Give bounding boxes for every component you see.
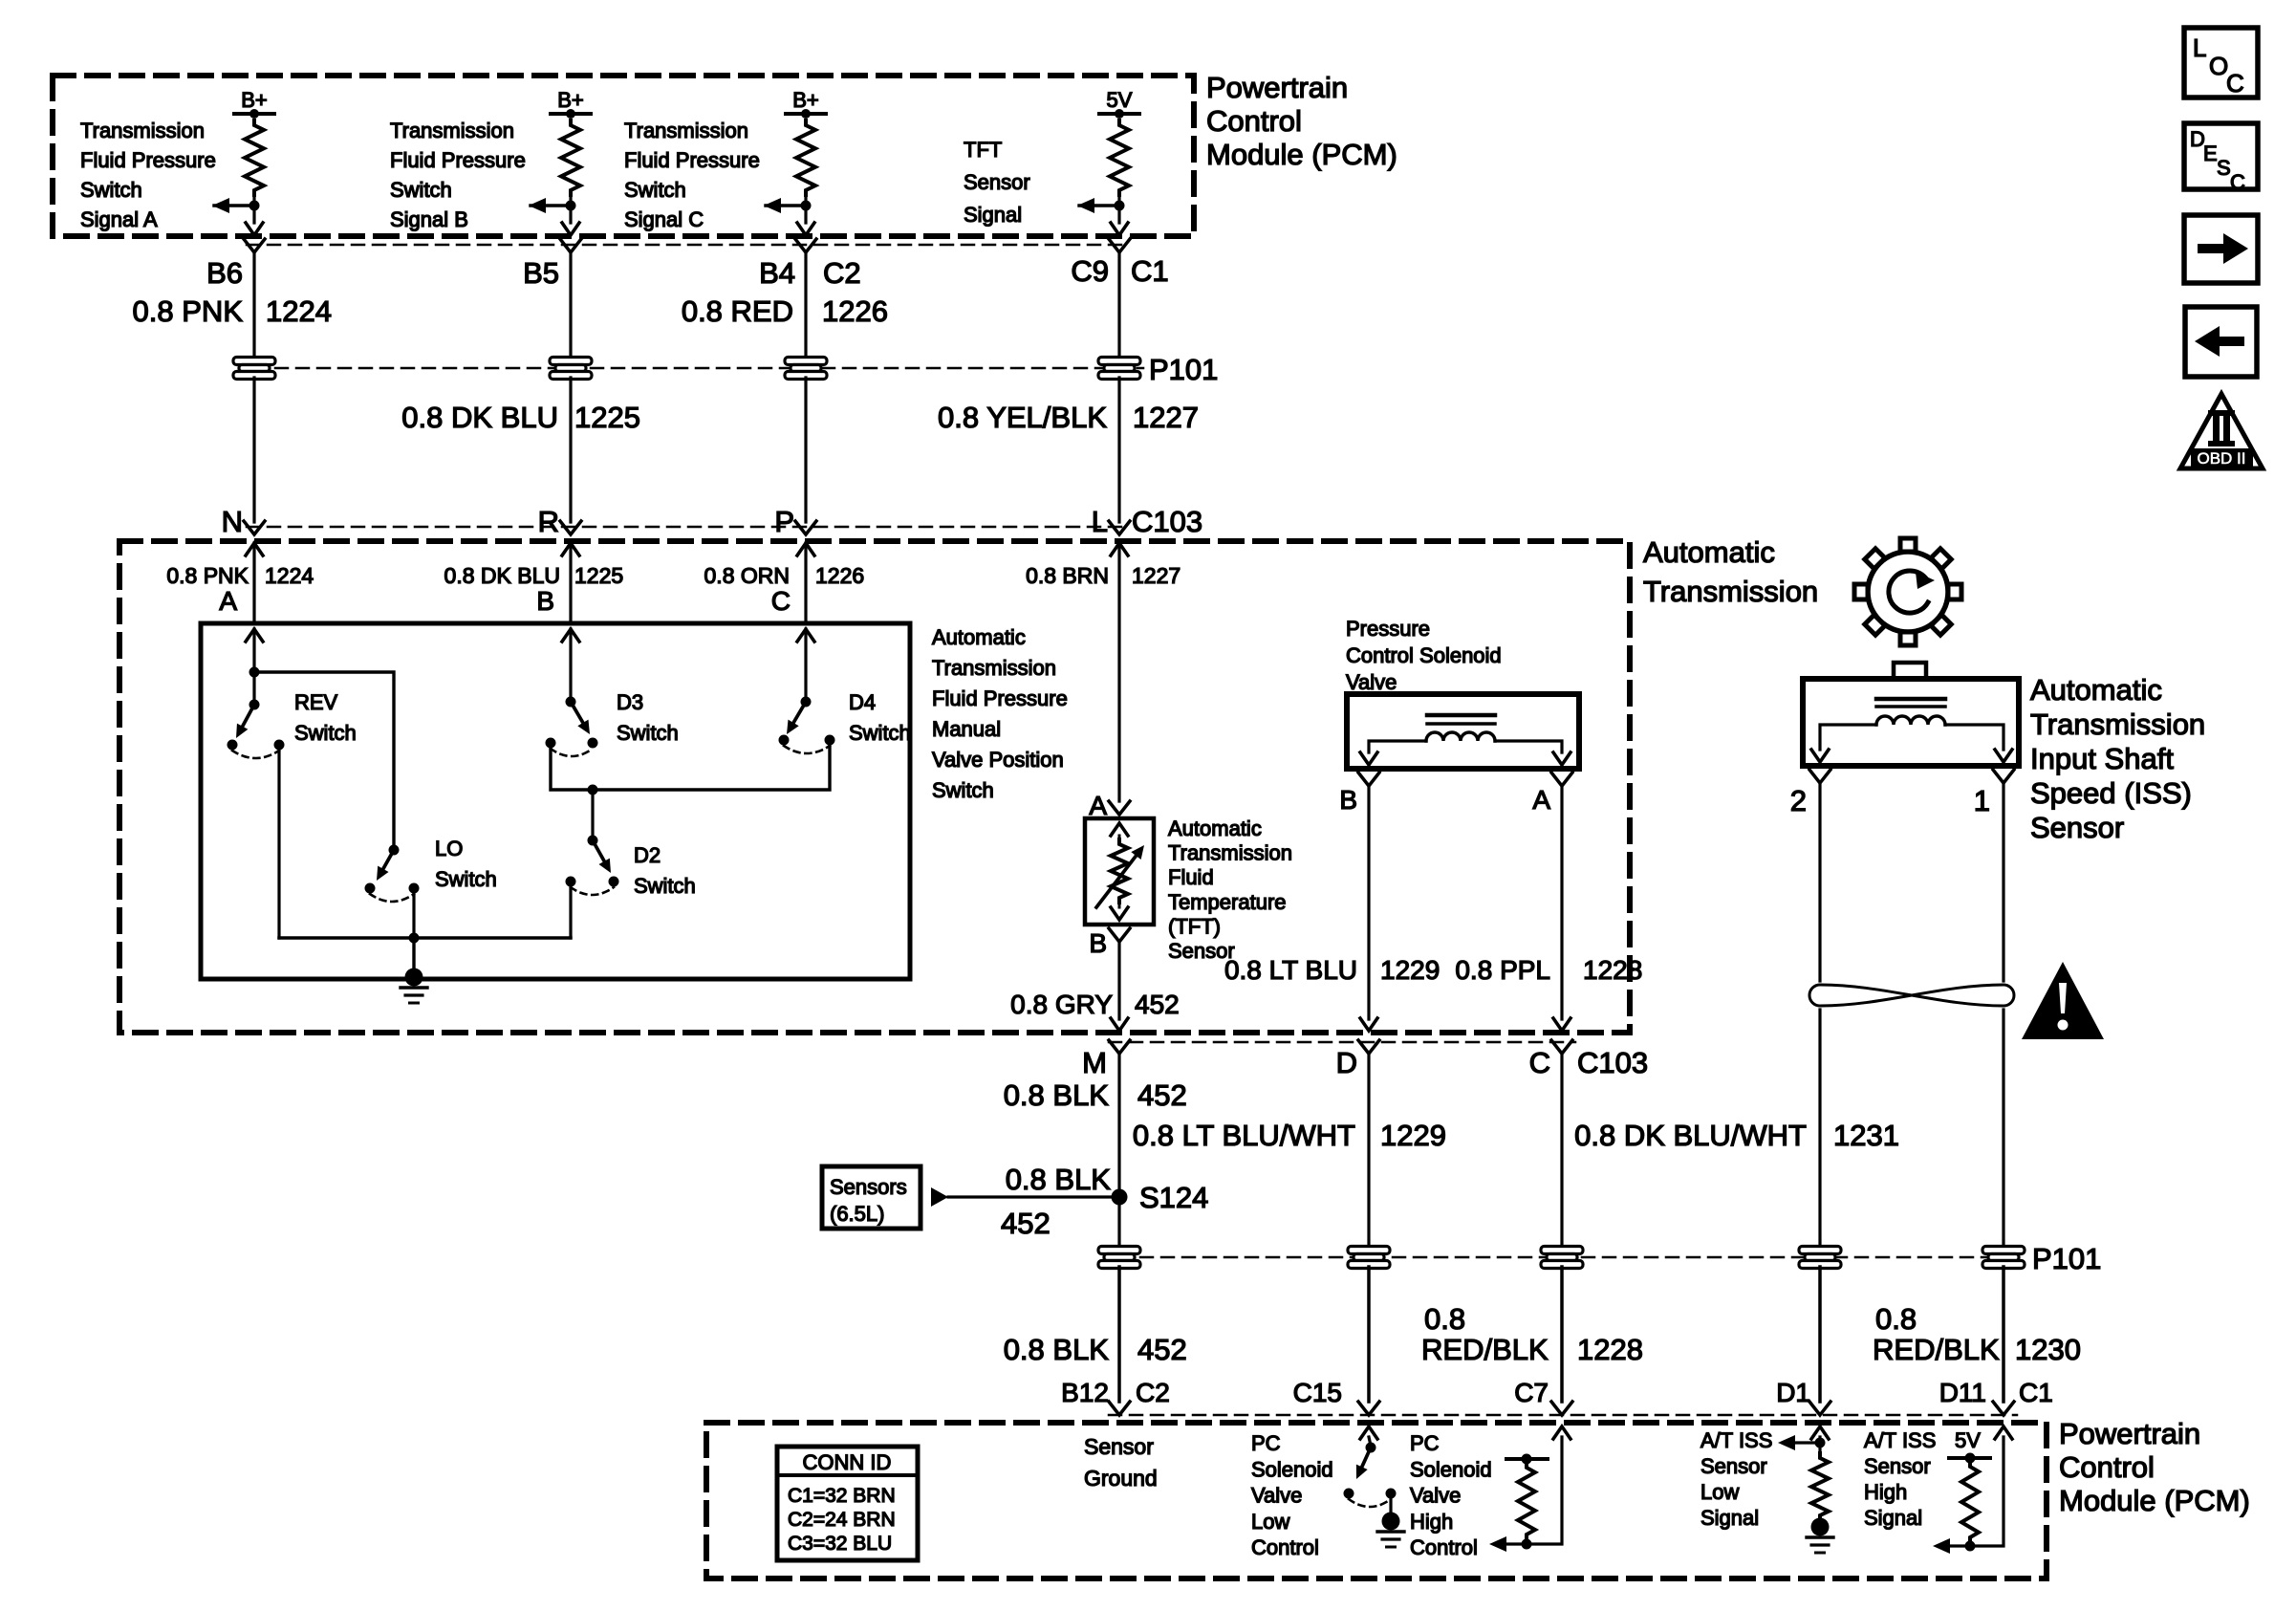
- svg-text:A: A: [1532, 785, 1550, 815]
- P101 pass-through connector row (bottom): [1119, 1256, 2017, 1259]
- svg-text:0.8 RED: 0.8 RED: [682, 294, 793, 328]
- svg-text:0.8: 0.8: [1424, 1302, 1465, 1336]
- pin fork D: [1358, 1040, 1379, 1054]
- P101 connector grommet at x=1634 (bottom): [1541, 1247, 1583, 1254]
- gear icon (input shaft): [1854, 538, 1961, 645]
- svg-text:Transmission: Transmission: [80, 119, 205, 142]
- svg-text:Signal: Signal: [1864, 1506, 1922, 1530]
- svg-text:Fluid Pressure: Fluid Pressure: [80, 148, 216, 172]
- C103 connector boundary line (thin dashed, bottom): [1109, 1041, 1575, 1044]
- wire 1227 YEL/BLK segment C1-P101: [1117, 252, 1120, 359]
- svg-text:0.8 PPL: 0.8 PPL: [1455, 955, 1550, 985]
- svg-text:C1: C1: [2019, 1378, 2053, 1407]
- svg-text:S124: S124: [1139, 1181, 1208, 1214]
- wire 1225 segment P101-R: [569, 378, 572, 522]
- ground symbol PC solenoid driver: [1377, 1513, 1404, 1548]
- wire label 0.8 BLK 452 (lower): [1004, 1333, 1187, 1366]
- svg-text:D3: D3: [617, 690, 643, 714]
- ground stub: [412, 938, 415, 975]
- pin fork at PCM bottom boundary x=1432: [1358, 1402, 1379, 1415]
- svg-text:1229: 1229: [1380, 1119, 1446, 1152]
- svg-text:Switch: Switch: [849, 721, 911, 745]
- wire label 0.8 BRN 1227 (AT): [1026, 563, 1180, 588]
- svg-text:1229: 1229: [1380, 955, 1440, 985]
- svg-text:Powertrain: Powertrain: [2059, 1417, 2200, 1450]
- wire label 0.8 LT BLU 1229: [1224, 955, 1440, 985]
- svg-text:1224: 1224: [265, 563, 314, 588]
- svg-text:Automatic: Automatic: [932, 625, 1026, 649]
- svg-text:N: N: [222, 505, 243, 538]
- svg-text:Sensors: Sensors: [830, 1175, 907, 1199]
- TFT thermistor symbol: [1096, 823, 1144, 920]
- P101 connector grommet at x=1171 (bottom): [1098, 1247, 1140, 1254]
- svg-text:B: B: [536, 586, 554, 616]
- label Automatic Transmission Fluid Temperature (TFT) Sensor: [1168, 816, 1292, 963]
- internal 5V pull-up resistor (ISS high): [1949, 1453, 1990, 1552]
- svg-text:Module (PCM): Module (PCM): [2059, 1484, 2250, 1517]
- label A/T ISS Sensor Low Signal: [1700, 1428, 1772, 1530]
- ground symbol ISS low: [1807, 1518, 1833, 1554]
- label PC Solenoid Valve Low Control: [1251, 1431, 1333, 1559]
- svg-text:Switch: Switch: [624, 178, 686, 202]
- svg-text:Signal A: Signal A: [80, 207, 158, 231]
- TFT sensor box: [1085, 818, 1154, 925]
- arrow up into PCM at D1: [1811, 1426, 1829, 1439]
- wire 1228 segment P101 to C15: [1367, 1267, 1371, 1402]
- svg-text:M: M: [1082, 1046, 1107, 1079]
- pin fork at C103, pin P: [795, 521, 816, 534]
- wire label 0.8 BLK 452 (M): [1004, 1078, 1187, 1112]
- ISS sensor mounting tab: [1894, 663, 1926, 679]
- wire column A inside switch box: [249, 629, 260, 705]
- arrow up into PCM at C7: [1553, 1426, 1570, 1439]
- wire 452 segment P101 to B12: [1117, 1267, 1121, 1402]
- fork at ISS terminal 2: [1809, 770, 1830, 783]
- svg-text:0.8 BLK: 0.8 BLK: [1004, 1078, 1110, 1112]
- svg-text:0.8 GRY: 0.8 GRY: [1010, 990, 1113, 1019]
- P101 connector grommet at x=1171: [1098, 358, 1140, 365]
- wire 1224 segment P101-N: [252, 378, 255, 522]
- svg-text:High: High: [1410, 1510, 1453, 1534]
- svg-text:High: High: [1864, 1480, 1907, 1504]
- P101 connector grommet at x=266: [233, 358, 275, 365]
- description text column A: [80, 119, 216, 231]
- label REV Switch: [294, 690, 357, 745]
- CONN ID table: [777, 1447, 918, 1560]
- wire to PCM pin, column B: [562, 195, 579, 235]
- wire column C inside switch box (D4): [804, 629, 807, 702]
- label PC Solenoid Valve High Control: [1410, 1431, 1492, 1559]
- svg-text:Switch: Switch: [80, 178, 142, 202]
- resistor pull-up, column C: [796, 120, 815, 195]
- svg-text:Switch: Switch: [932, 778, 994, 802]
- arrow up inside switch box at x=843: [797, 629, 814, 642]
- svg-text:L: L: [1092, 505, 1108, 538]
- P101 pass-through connector row (top): [254, 367, 1143, 370]
- svg-text:A/T ISS: A/T ISS: [1700, 1428, 1772, 1452]
- resistor pull-up, column TFT: [1110, 120, 1129, 195]
- svg-text:Automatic: Automatic: [1168, 816, 1262, 840]
- svg-text:Control: Control: [1410, 1535, 1478, 1559]
- svg-text:Solenoid: Solenoid: [1251, 1457, 1333, 1481]
- signal tap arrow, column A: [212, 198, 260, 213]
- wire 452 GRY segment TFT-B to C103: [1111, 942, 1128, 1031]
- twisted pair symbol: [1809, 985, 2014, 1006]
- svg-text:Ground: Ground: [1084, 1466, 1158, 1491]
- pin fork at PCM bottom boundary x=1904: [1809, 1402, 1830, 1415]
- PCM connector boundary line (thin dashed): [247, 244, 1128, 247]
- svg-text:1225: 1225: [574, 401, 640, 434]
- svg-text:Signal C: Signal C: [624, 207, 704, 231]
- wire label 0.8 LT BLU/WHT 1229: [1133, 1119, 1446, 1152]
- svg-text:Speed (ISS): Speed (ISS): [2030, 776, 2192, 810]
- arrow up inside switch box at x=266: [246, 629, 263, 642]
- svg-text:C1=32 BRN: C1=32 BRN: [788, 1485, 896, 1507]
- C103 connector boundary line (thin dashed, top): [247, 526, 1128, 529]
- signal tap arrow, column C: [764, 198, 812, 213]
- wire from REV switch contact to ground rail: [277, 750, 280, 938]
- internal resistor (ISS low): [1811, 1453, 1829, 1520]
- svg-text:B+: B+: [241, 88, 268, 112]
- svg-text:Signal: Signal: [964, 203, 1022, 227]
- description text column C: [624, 119, 760, 231]
- pin fork at PCM bottom boundary x=1171: [1109, 1402, 1130, 1415]
- svg-text:B: B: [1339, 785, 1357, 815]
- svg-text:Sensor: Sensor: [964, 170, 1030, 194]
- REV switch: [227, 700, 285, 759]
- wire 1230 segment P101 to D11: [2002, 1267, 2005, 1402]
- wire 1231 segment twisted pair to P101: [1818, 1010, 1821, 1248]
- svg-text:Switch: Switch: [634, 874, 696, 898]
- wire label 0.8 ORN 1226 (AT): [704, 563, 865, 588]
- svg-text:Transmission: Transmission: [2030, 708, 2205, 741]
- solenoid coil: [1426, 732, 1495, 741]
- wire entering AT box at x=1171 with up arrow: [1111, 543, 1128, 801]
- wire 1227 segment P101-L: [1117, 378, 1120, 522]
- arrow up into PCM at D11: [1995, 1426, 2012, 1439]
- internal output arrow (ISS high): [1933, 1538, 1950, 1554]
- svg-text:C: C: [1529, 1046, 1550, 1079]
- wire column B inside switch box (D3): [569, 629, 572, 702]
- wire 1229 LT BLU segment solenoid-B to C103: [1360, 786, 1377, 1031]
- svg-text:Manual: Manual: [932, 717, 1001, 741]
- pin fork at PCM boundary, column B: [560, 239, 581, 252]
- svg-text:1231: 1231: [1833, 1119, 1899, 1152]
- svg-text:C1: C1: [1131, 254, 1169, 288]
- wire 1226 RED segment B4-P101: [804, 252, 807, 359]
- svg-text:(6.5L): (6.5L): [830, 1202, 884, 1226]
- internal resistor (PC high): [1506, 1454, 1548, 1550]
- svg-text:0.8 BLK: 0.8 BLK: [1004, 1333, 1110, 1366]
- svg-text:Module (PCM): Module (PCM): [1206, 138, 1397, 171]
- wire label 0.8 PPL 1228: [1455, 955, 1642, 985]
- svg-text:Sensor: Sensor: [1700, 1454, 1767, 1478]
- svg-text:Fluid Pressure: Fluid Pressure: [390, 148, 526, 172]
- solenoid lead A: [1495, 741, 1570, 765]
- svg-text:D2: D2: [634, 843, 661, 867]
- wire 1229 segment D to P101: [1367, 1054, 1370, 1248]
- wire to PCM pin, column A: [246, 195, 263, 235]
- svg-text:452: 452: [1137, 1078, 1187, 1112]
- svg-text:Valve: Valve: [1251, 1484, 1302, 1508]
- back arrow icon: [2185, 307, 2257, 377]
- svg-text:PC: PC: [1251, 1431, 1281, 1455]
- wire 1231 segment P101 to D1: [1818, 1267, 1822, 1402]
- svg-text:B+: B+: [557, 88, 584, 112]
- ISS core bars: [1876, 699, 1945, 707]
- ISS lead 2: [1811, 725, 1876, 762]
- arrow up into PCM at C15: [1360, 1426, 1377, 1439]
- ground rail inside switch box: [279, 936, 571, 939]
- svg-text:Control: Control: [1251, 1535, 1319, 1559]
- svg-text:5V: 5V: [1107, 88, 1133, 112]
- svg-text:D11: D11: [1939, 1378, 1986, 1407]
- wire label 0.8 YEL/BLK 1227: [938, 401, 1199, 434]
- pin fork at PCM boundary, column TFT: [1109, 239, 1130, 252]
- label Automatic Transmission Fluid Pressure Manual Valve Position Switch: [932, 625, 1068, 802]
- wire label 0.8 DK BLU 1225: [401, 401, 640, 434]
- label Automatic Transmission title: [1643, 535, 1818, 608]
- svg-text:Automatic: Automatic: [1643, 535, 1775, 569]
- pin fork at PCM bottom boundary x=1634: [1551, 1402, 1572, 1415]
- label A/T ISS Sensor High Signal: [1864, 1428, 1936, 1530]
- pin fork at C103, pin L: [1109, 521, 1130, 534]
- svg-text:C15: C15: [1293, 1378, 1342, 1407]
- P101 connector grommet at x=1432 (bottom): [1348, 1247, 1390, 1254]
- D4 switch: [779, 697, 835, 754]
- wire entering AT box at x=266 with up arrow: [246, 543, 263, 623]
- D2 switch: [566, 836, 619, 896]
- branch wire to LO switch: [254, 672, 394, 850]
- svg-text:A: A: [219, 586, 237, 616]
- svg-text:Fluid Pressure: Fluid Pressure: [932, 686, 1068, 710]
- svg-text:Pressure: Pressure: [1346, 617, 1430, 641]
- svg-text:Switch: Switch: [617, 721, 679, 745]
- svg-text:Sensor: Sensor: [1864, 1454, 1931, 1478]
- svg-text:OBD II: OBD II: [2197, 449, 2245, 468]
- svg-text:D1: D1: [1776, 1378, 1810, 1407]
- svg-text:1230: 1230: [2015, 1333, 2081, 1366]
- D3 switch: [546, 697, 598, 757]
- wire label 0.8 RED 1226: [682, 294, 888, 328]
- svg-text:C3=32 BLU: C3=32 BLU: [788, 1533, 892, 1555]
- wire label 0.8 PNK 1224 (AT): [166, 563, 314, 588]
- label D2 Switch: [634, 843, 696, 898]
- PCM (Powertrain Control Module) bottom box outline: [706, 1423, 2047, 1578]
- wire 1226 segment P101-P: [804, 378, 807, 522]
- svg-text:B12: B12: [1061, 1378, 1109, 1407]
- svg-text:0.8 ORN: 0.8 ORN: [704, 563, 790, 588]
- svg-text:Control: Control: [2059, 1450, 2155, 1484]
- fork at TFT sensor terminal A: [1109, 801, 1130, 815]
- internal tap arrow (ISS low): [1778, 1435, 1826, 1450]
- solenoid lead B: [1360, 741, 1426, 765]
- P101 connector grommet at x=1904 (bottom): [1799, 1247, 1841, 1254]
- svg-text:REV: REV: [294, 690, 338, 714]
- svg-text:Sensor: Sensor: [2030, 811, 2124, 844]
- svg-text:452: 452: [1135, 990, 1180, 1019]
- wire D2 contact to ground rail: [569, 886, 572, 938]
- warning triangle symbol: [2022, 962, 2104, 1039]
- ground symbol of switch box: [401, 969, 427, 1004]
- svg-text:Valve Position: Valve Position: [932, 748, 1064, 772]
- wire C7 internal: [1506, 1437, 1562, 1544]
- wire D11 internal: [1950, 1437, 2004, 1546]
- P101 connector grommet at x=843: [785, 358, 827, 365]
- wire 1224 PNK segment B6-P101: [252, 252, 255, 359]
- svg-text:452: 452: [1001, 1207, 1051, 1240]
- signal tap arrow, column TFT: [1077, 198, 1125, 213]
- Pressure Control Solenoid Valve box: [1347, 694, 1579, 769]
- wire label 0.8 RED/BLK 1228: [1421, 1302, 1643, 1366]
- svg-text:0.8 LT BLU/WHT: 0.8 LT BLU/WHT: [1133, 1119, 1355, 1152]
- svg-text:Sensor: Sensor: [1084, 1434, 1154, 1459]
- svg-text:C9: C9: [1071, 254, 1109, 288]
- wire 1228 segment C to P101: [1560, 1054, 1563, 1248]
- wire label 0.8 RED/BLK 1230: [1873, 1302, 2081, 1366]
- PCM (Powertrain Control Module) top box outline: [53, 76, 1194, 236]
- label Powertrain Control Module (PCM) bottom: [2059, 1417, 2250, 1517]
- pin fork M: [1109, 1040, 1130, 1054]
- svg-text:1: 1: [1974, 784, 1990, 817]
- label LO Switch: [435, 837, 497, 891]
- off-page arrow to sensors: [931, 1187, 948, 1207]
- arrow up inside switch box at x=597: [562, 629, 579, 642]
- svg-text:C103: C103: [1132, 505, 1202, 538]
- junction dot ground rail: [409, 933, 420, 944]
- svg-text:C: C: [2226, 69, 2244, 98]
- ISS lead 1: [1945, 725, 2012, 762]
- label D3 Switch: [617, 690, 679, 745]
- svg-text:E: E: [2203, 142, 2218, 165]
- wire 1228 segment P101 to C7: [1560, 1267, 1564, 1402]
- wire 452 BLK segment M to S124: [1117, 1054, 1120, 1248]
- svg-text:A/T ISS: A/T ISS: [1864, 1428, 1936, 1452]
- label Automatic Transmission Input Shaft Speed (ISS) Sensor: [2030, 673, 2205, 844]
- svg-text:1228: 1228: [1577, 1333, 1643, 1366]
- svg-text:0.8 PNK: 0.8 PNK: [166, 563, 249, 588]
- svg-text:0.8 PNK: 0.8 PNK: [133, 294, 244, 328]
- P101 connector grommet at x=2096 (bottom): [1982, 1247, 2025, 1254]
- PCM bottom connector boundary line (thin dashed): [1109, 1414, 2017, 1417]
- svg-text:Valve: Valve: [1346, 670, 1397, 694]
- splice S124: [1112, 1189, 1128, 1206]
- svg-text:0.8 YEL/BLK: 0.8 YEL/BLK: [938, 401, 1107, 434]
- svg-text:D: D: [1336, 1046, 1357, 1079]
- P101 connector grommet at x=597: [550, 358, 592, 365]
- PC solenoid valve low control driver switch: [1344, 1437, 1397, 1515]
- svg-text:Automatic: Automatic: [2030, 673, 2162, 707]
- svg-text:0.8 LT BLU: 0.8 LT BLU: [1224, 955, 1357, 985]
- svg-text:Fluid Pressure: Fluid Pressure: [624, 148, 760, 172]
- pin fork at PCM bottom boundary x=2096: [1993, 1402, 2014, 1415]
- svg-text:P: P: [774, 505, 794, 538]
- svg-text:Switch: Switch: [390, 178, 452, 202]
- pin fork at C103, pin R: [560, 521, 581, 534]
- Sensors (6.5L) off-page reference box: [822, 1166, 921, 1229]
- junction dot D3/D4 rail: [588, 785, 598, 795]
- svg-text:LO: LO: [435, 837, 463, 860]
- svg-text:A: A: [1089, 791, 1107, 820]
- svg-text:Transmission: Transmission: [390, 119, 514, 142]
- ISS sensor box: [1803, 679, 2019, 766]
- svg-text:B: B: [1089, 928, 1107, 958]
- wire 1230 segment twisted pair to P101: [2002, 1010, 2004, 1248]
- svg-text:1225: 1225: [574, 563, 623, 588]
- svg-text:5V: 5V: [1955, 1428, 1981, 1452]
- svg-text:C: C: [771, 586, 791, 616]
- svg-text:0.8 DK BLU: 0.8 DK BLU: [444, 563, 560, 588]
- LO switch: [365, 845, 420, 903]
- svg-text:1227: 1227: [1133, 401, 1199, 434]
- label D4 Switch: [849, 690, 911, 745]
- wire entering AT box at x=597 with up arrow: [562, 543, 579, 623]
- svg-text:Input Shaft: Input Shaft: [2030, 742, 2174, 775]
- svg-text:R: R: [538, 505, 559, 538]
- wire 1231 segment ISS-2 to twisted pair: [1818, 783, 1821, 981]
- Manual Valve Position Switch inner box: [201, 623, 910, 979]
- svg-text:1226: 1226: [822, 294, 888, 328]
- svg-text:Powertrain: Powertrain: [1206, 71, 1348, 104]
- svg-text:B5: B5: [523, 256, 559, 290]
- svg-text:C2=24 BRN: C2=24 BRN: [788, 1509, 896, 1531]
- LOC icon: [2184, 28, 2258, 98]
- svg-text:Signal: Signal: [1700, 1506, 1759, 1530]
- svg-text:P101: P101: [2032, 1242, 2101, 1275]
- svg-text:Valve: Valve: [1410, 1484, 1461, 1508]
- svg-text:2: 2: [1790, 784, 1807, 817]
- wire 1230 segment ISS-1 to twisted pair: [2002, 783, 2004, 981]
- svg-text:Control Solenoid: Control Solenoid: [1346, 643, 1502, 667]
- svg-text:Low: Low: [1700, 1480, 1739, 1504]
- label Powertrain Control Module (PCM) top: [1206, 71, 1397, 171]
- DESC icon: [2184, 123, 2258, 194]
- wire label 0.8 GRY 452: [1010, 990, 1180, 1019]
- svg-text:Control: Control: [1206, 104, 1302, 138]
- svg-text:0.8 BRN: 0.8 BRN: [1026, 563, 1109, 588]
- svg-text:0.8 DK BLU/WHT: 0.8 DK BLU/WHT: [1574, 1119, 1807, 1152]
- svg-text:Switch: Switch: [294, 721, 357, 745]
- svg-text:Transmission: Transmission: [624, 119, 748, 142]
- svg-text:C2: C2: [1136, 1378, 1170, 1407]
- svg-text:S: S: [2217, 156, 2231, 180]
- OBD II icon: [2180, 394, 2263, 468]
- wire D3 contact to D2 junction rail: [551, 745, 830, 790]
- wire to PCM pin, column TFT: [1111, 195, 1128, 235]
- signal tap arrow, column B: [529, 198, 576, 213]
- svg-text:Signal B: Signal B: [390, 207, 468, 231]
- wire 1228 PPL segment solenoid-A to C103: [1553, 786, 1570, 1031]
- svg-text:1228: 1228: [1583, 955, 1642, 985]
- svg-text:L: L: [2193, 33, 2206, 62]
- svg-text:Temperature: Temperature: [1168, 890, 1287, 914]
- pin fork at C103, pin N: [244, 521, 265, 534]
- fork at TFT sensor terminal B: [1109, 928, 1130, 942]
- svg-text:Transmission: Transmission: [932, 656, 1056, 680]
- svg-text:Transmission: Transmission: [1643, 575, 1818, 608]
- svg-text:CONN ID: CONN ID: [803, 1450, 892, 1474]
- svg-text:PC: PC: [1410, 1431, 1440, 1455]
- wire junction to D2 switch: [591, 790, 594, 840]
- 5V supply node, column TFT: [1099, 88, 1139, 119]
- svg-text:1226: 1226: [815, 563, 864, 588]
- svg-text:C103: C103: [1577, 1046, 1648, 1079]
- svg-text:Fluid: Fluid: [1168, 865, 1214, 889]
- svg-text:TFT: TFT: [964, 138, 1002, 162]
- label Pressure Control Solenoid Valve: [1346, 617, 1502, 694]
- forward arrow icon: [2184, 215, 2258, 283]
- svg-text:RED/BLK: RED/BLK: [1873, 1333, 2000, 1366]
